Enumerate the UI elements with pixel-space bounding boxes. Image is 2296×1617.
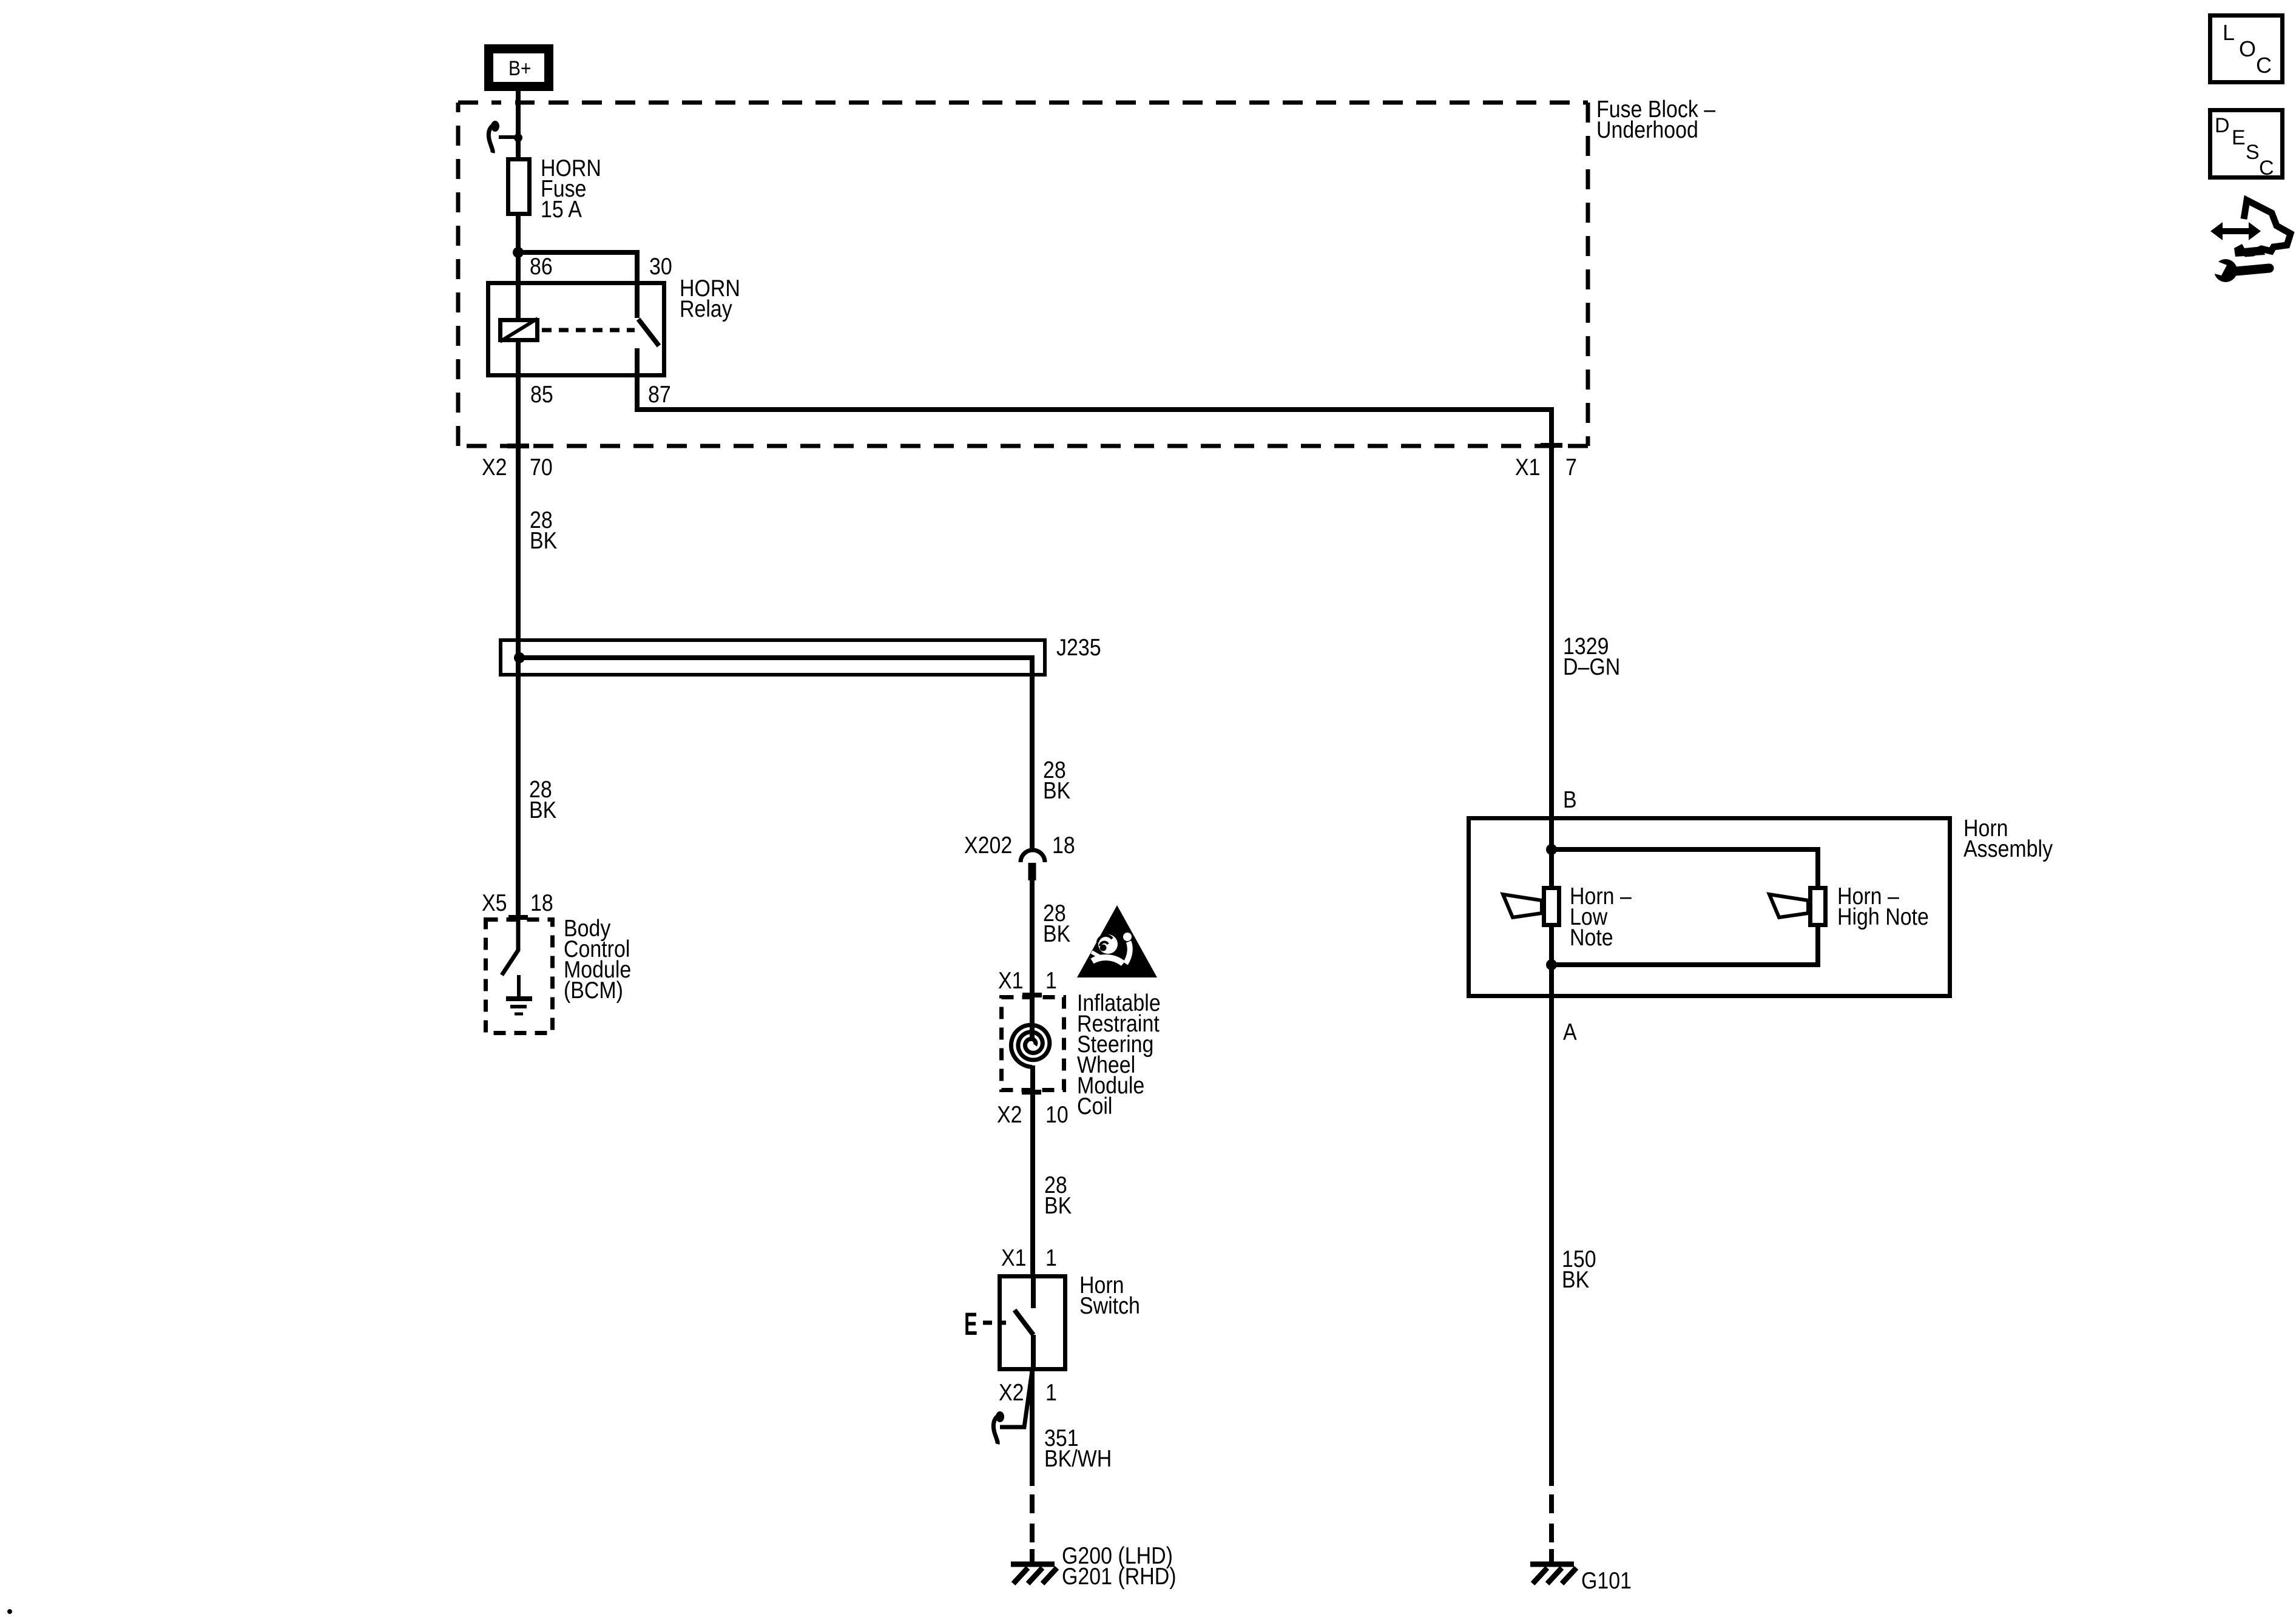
svg-text:10: 10 — [1045, 1101, 1069, 1128]
svg-text:X1: X1 — [998, 967, 1023, 994]
svg-text:87: 87 — [648, 381, 671, 408]
svg-text:18: 18 — [530, 890, 553, 916]
svg-text:O: O — [2239, 36, 2256, 61]
svg-text:C: C — [2259, 157, 2274, 180]
svg-text:E: E — [964, 1306, 977, 1342]
svg-text:G201 (RHD): G201 (RHD) — [1062, 1563, 1177, 1590]
svg-text:85: 85 — [530, 381, 553, 408]
svg-text:(BCM): (BCM) — [564, 977, 623, 1004]
svg-text:30: 30 — [649, 253, 672, 280]
svg-text:Underhood: Underhood — [1596, 116, 1698, 143]
svg-text:1: 1 — [1045, 1244, 1057, 1271]
svg-text:X5: X5 — [482, 890, 507, 916]
svg-text:L: L — [2223, 20, 2235, 45]
svg-text:S: S — [2246, 141, 2260, 164]
svg-text:BK: BK — [1562, 1266, 1589, 1293]
svg-text:D–GN: D–GN — [1563, 653, 1620, 680]
svg-text:G101: G101 — [1581, 1567, 1632, 1594]
svg-text:BK: BK — [529, 797, 556, 823]
svg-text:BK: BK — [1043, 777, 1070, 804]
svg-text:X1: X1 — [1515, 454, 1540, 481]
svg-text:J235: J235 — [1056, 634, 1101, 661]
svg-text:X2: X2 — [997, 1101, 1022, 1128]
svg-text:C: C — [2256, 53, 2272, 78]
svg-text:1: 1 — [1045, 1379, 1057, 1406]
svg-text:BK: BK — [1044, 1192, 1072, 1219]
svg-text:Relay: Relay — [680, 295, 732, 322]
svg-text:Switch: Switch — [1079, 1292, 1140, 1319]
svg-text:Note: Note — [1570, 924, 1613, 951]
svg-text:X202: X202 — [964, 832, 1012, 859]
svg-text:X2: X2 — [999, 1379, 1024, 1406]
svg-text:X1: X1 — [1001, 1244, 1026, 1271]
svg-text:High Note: High Note — [1837, 903, 1929, 930]
svg-text:B+: B+ — [508, 56, 531, 79]
svg-text:BK: BK — [1043, 920, 1070, 947]
svg-text:X2: X2 — [482, 454, 507, 481]
svg-text:B: B — [1563, 786, 1577, 813]
svg-text:BK/WH: BK/WH — [1044, 1445, 1112, 1472]
svg-text:7: 7 — [1565, 454, 1577, 481]
svg-text:E: E — [2232, 126, 2246, 149]
svg-text:86: 86 — [530, 253, 553, 280]
svg-text:1: 1 — [1045, 967, 1057, 994]
svg-text:D: D — [2215, 114, 2230, 137]
svg-text:Coil: Coil — [1077, 1093, 1112, 1119]
svg-text:Assembly: Assembly — [1963, 836, 2053, 862]
svg-text:70: 70 — [530, 454, 553, 481]
svg-text:18: 18 — [1052, 832, 1075, 859]
svg-text:A: A — [1563, 1019, 1577, 1045]
svg-text:15 A: 15 A — [541, 196, 582, 223]
svg-text:BK: BK — [530, 527, 557, 554]
